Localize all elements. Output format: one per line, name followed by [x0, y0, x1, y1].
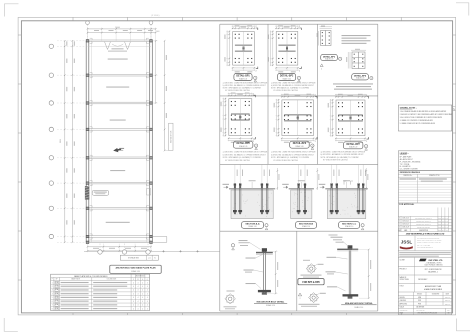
svg-text:PVR: PVR: [418, 300, 421, 302]
svg-text:GENERAL NOTES :-: GENERAL NOTES :-: [400, 106, 418, 109]
svg-text:CHECKED: CHECKED: [400, 300, 407, 302]
svg-text:2: 2: [256, 145, 257, 147]
svg-text:DETAIL-BP2: DETAIL-BP2: [280, 75, 294, 78]
svg-text:2: 2: [256, 70, 257, 72]
svg-text:DETAIL-BP3: DETAIL-BP3: [323, 55, 336, 58]
svg-text:2: 2: [366, 146, 367, 148]
svg-text:2000: 2000: [156, 31, 160, 33]
svg-text:REFERENCE DRAWINGS: REFERENCE DRAWINGS: [400, 171, 421, 174]
svg-text:DETAIL-BP5: DETAIL-BP5: [236, 142, 250, 145]
svg-text:SRB: SRB: [418, 297, 421, 299]
svg-text:G: G: [142, 279, 143, 281]
svg-text:WWW.JSWSEVERFIELD.IN: WWW.JSWSEVERFIELD.IN: [417, 247, 433, 249]
svg-text:a) GROUTED : 25MM THK NON SHRI: a) GROUTED : 25MM THK NON SHRINK GROUT O…: [271, 152, 316, 154]
svg-text:M36 ANCHOR BOLT DETAIL: M36 ANCHOR BOLT DETAIL: [257, 300, 285, 303]
svg-text:EL: EL: [154, 258, 156, 260]
svg-text:2: 2: [256, 26, 257, 28]
svg-text:JSW SEVERFIELD STRUCTURES LTD: JSW SEVERFIELD STRUCTURES LTD: [406, 234, 445, 236]
svg-text:CLIENT: CLIENT: [400, 259, 405, 261]
svg-text:03: 03: [448, 313, 450, 315]
svg-text:2327-JDN-DWG-ST-SP01-00-002: 2327-JDN-DWG-ST-SP01-00-002: [418, 313, 438, 315]
svg-text:24000: 24000: [115, 27, 120, 29]
svg-text:PROJECT No.: PROJECT No.: [400, 310, 409, 312]
svg-text:2023-12: 2023-12: [445, 297, 450, 299]
svg-text:PVR: PVR: [418, 303, 421, 305]
svg-text:CROSS BELT: CROSS BELT: [418, 279, 427, 281]
svg-text:SECTION C-C: SECTION C-C: [342, 224, 357, 226]
svg-text:SECTION B-B: SECTION B-B: [299, 224, 314, 226]
svg-text:JSW STEEL LTD.: JSW STEEL LTD.: [428, 260, 443, 262]
svg-text:2: 2: [299, 70, 300, 72]
svg-text:2: 2: [253, 141, 254, 143]
svg-text:2327 - O BF2/CONVEYOR: 2327 - O BF2/CONVEYOR: [425, 269, 442, 271]
svg-text:Q: Q: [147, 279, 148, 281]
svg-text:BP: BP: [56, 279, 58, 281]
svg-text:P: P: [52, 279, 53, 281]
svg-text:a) GROUTED : 25MM THK NON SHRI: a) GROUTED : 25MM THK NON SHRINK GROUT O…: [223, 83, 268, 85]
svg-text:STRUCTURE: STRUCTURE: [400, 279, 409, 281]
svg-text:2: 2: [366, 141, 367, 143]
svg-text:DETAIL-BP1: DETAIL-BP1: [236, 75, 250, 78]
svg-text:DETAIL-BP7: DETAIL-BP7: [346, 143, 360, 146]
svg-text:COLUMN SIZE: COLUMN SIZE: [107, 279, 117, 281]
svg-text:DESIGN: DESIGN: [400, 297, 405, 299]
svg-text:2: 2: [253, 93, 254, 95]
svg-text:JSSL: JSSL: [401, 240, 413, 245]
svg-text:ROD SIZE BY VDR: ROD SIZE BY VDR: [171, 131, 173, 143]
svg-text:ANCHOR BOLT AND BASE PLATE PLA: ANCHOR BOLT AND BASE PLATE PLAN: [115, 267, 156, 270]
svg-text:( Z 1:100 ): ( Z 1:100 ): [151, 15, 160, 17]
svg-text:2: 2: [255, 78, 256, 80]
svg-text:PROJECT: PROJECT: [400, 269, 407, 271]
svg-text:M24 ANCHOR BOLT DETAIL: M24 ANCHOR BOLT DETAIL: [345, 302, 373, 305]
svg-text:TEL: +91 44 6111 1222: TEL: +91 44 6111 1222: [417, 245, 430, 247]
svg-text:a) GROUTED : 25MM THK NON SHRI: a) GROUTED : 25MM THK NON SHRINK GROUT O…: [321, 151, 366, 153]
svg-text:2: 2: [366, 95, 367, 97]
svg-text:FOR APPROVAL: FOR APPROVAL: [399, 203, 415, 206]
svg-text:2: 2: [299, 26, 300, 28]
svg-text:2: 2: [315, 141, 316, 143]
svg-text:23531: 23531: [400, 313, 404, 315]
svg-text:2023-12: 2023-12: [445, 300, 450, 302]
svg-text:2023-12: 2023-12: [445, 303, 450, 305]
svg-text:DETAIL-BP4: DETAIL-BP4: [354, 75, 367, 78]
svg-text:FOR BP5 & BP6: FOR BP5 & BP6: [302, 282, 320, 284]
svg-text:28000: 28000: [60, 139, 62, 143]
svg-text:+0.0: +0.0: [148, 258, 151, 260]
svg-text:REV: REV: [447, 310, 450, 312]
svg-text:2: 2: [315, 95, 316, 97]
svg-text:BASE PLATE SIZE & COLUMN: BASE PLATE SIZE & COLUMN DETAILS: [74, 275, 108, 278]
svg-text:a) GROUTED : 25MM THK NON SHRI: a) GROUTED : 25MM THK NON SHRINK GROUT O…: [271, 83, 316, 85]
svg-text:JSW SEVERFIELD STRUCTURES LTD: JSW SEVERFIELD STRUCTURES LTD: [417, 237, 439, 239]
svg-text:DETAIL-BP6: DETAIL-BP6: [293, 142, 307, 145]
svg-text:TITLE: TITLE: [400, 286, 404, 288]
svg-text:a) GROUTED : 25MM THK NON SHRI: a) GROUTED : 25MM THK NON SHRINK GROUT O…: [223, 152, 268, 154]
svg-text:SECTION A-A: SECTION A-A: [245, 223, 260, 226]
